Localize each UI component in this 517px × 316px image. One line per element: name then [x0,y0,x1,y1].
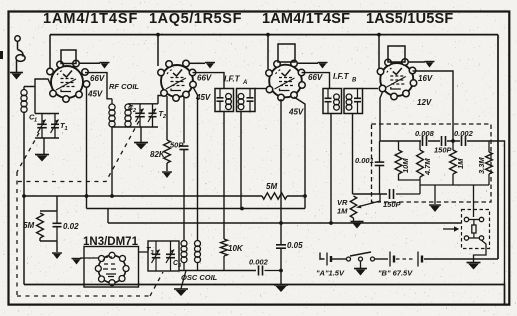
battery A 1.5V cell [327,253,346,266]
ground arrow AVC filter [52,253,62,259]
crystal earphone element [472,220,476,239]
variable capacitor C1 [37,114,47,139]
svg-text:B: B [352,78,357,84]
resistor 10M [395,141,420,180]
ground oscillator [174,289,188,296]
label 3.3M [477,157,486,174]
capacitor 0.002 right [462,136,466,146]
wire V3 pin to IFT B primary [302,73,330,89]
tube V4 1AS5 detector/output [377,59,417,100]
svg-text:5M: 5M [23,221,34,230]
wire RF coil top rail [128,103,158,105]
svg-text:2: 2 [162,114,166,120]
wire top filament bus [50,34,498,36]
IFT B primary winding [334,94,340,110]
gang linkage dashed left rail [16,172,18,296]
ground antenna [10,73,23,80]
node top bus V2 [156,33,160,37]
svg-text:0.002: 0.002 [454,129,474,138]
wire DM71 pin to ground arrow [80,257,99,259]
wire V4 pin to 0.001 [380,92,383,141]
box around DM71 [84,247,139,288]
label RF COIL [109,82,139,91]
svg-text:2: 2 [132,108,136,114]
label 82K [150,150,166,159]
wire bus3 B+ line [108,222,462,224]
label V2 66V [197,74,212,83]
resistor 1M right [450,141,457,185]
resistor 3.3M [486,141,493,185]
svg-text:1: 1 [34,118,37,124]
IFT B secondary box [344,89,363,114]
ground 0.05 [274,285,288,292]
svg-text:0.02: 0.02 [63,222,79,231]
wire RC rail to right return [489,141,505,285]
wire V2 pin to osc coil secondary [193,87,198,241]
wire V2 pin to IFT A primary [193,73,225,89]
grid cap shield V1 [61,50,76,64]
svg-text:12V: 12V [417,98,432,107]
IFT A secondary winding [238,94,244,110]
label tube V3 type 1AM4/1T4SF [262,11,350,27]
label OSC COIL [181,273,218,282]
wire arrow into jack [443,226,459,231]
trimmer T1 [51,114,60,139]
grid cap shield V4 [388,46,405,62]
wire V2 pin to 82K [166,96,168,140]
antenna [15,36,25,72]
wire V3 screen pin down [294,97,305,209]
ground RF coil [134,143,148,150]
wire 82K to ground arrow [166,163,168,171]
label 150P top [434,146,453,155]
label 0.008 [415,129,435,138]
wire AVC filter bottom [40,238,57,252]
resistor 5M vertical [37,213,44,238]
tube V1 1AM4 RF amplifier [47,60,90,102]
wire oscillator bottom rail [179,270,256,272]
gang linkage dashed to C3 [150,272,163,296]
svg-text:1AM4/1T4SF: 1AM4/1T4SF [43,11,138,27]
svg-text:1AS5/1U5SF: 1AS5/1U5SF [366,11,453,27]
ground switch [354,269,367,276]
wire antenna coil top to V1 grid [24,79,53,90]
wire RF coil bottom rail [112,126,158,128]
wire osc ground stem [181,271,186,289]
svg-text:150P: 150P [383,200,402,209]
label C2 [128,103,136,114]
wire jack to ground [474,240,487,262]
label V3 45V [288,108,304,117]
wire IFT A primary bottom to 10K [223,112,225,240]
wire IFT B to V4 grid [363,88,379,90]
node top bus V3 [266,33,270,37]
capacitor 0.008 [423,136,427,146]
node bus1 at V1 line [85,194,89,198]
gang linkage dashed bottom [17,295,150,297]
svg-text:"A"1.5V: "A"1.5V [316,269,345,278]
svg-text:82K: 82K [150,150,166,159]
wire switch to ground [360,261,362,268]
ground RC network [429,205,441,212]
wire VR wiper [356,194,380,208]
svg-text:0.002: 0.002 [249,258,269,267]
label 4.7M [423,158,432,176]
shield dashed box RC network [372,124,492,202]
wire V2 plate to ground arrow [189,62,205,64]
gang linkage dashed C2 [17,121,139,182]
label 10M [401,158,410,173]
wire switch to B battery [375,258,389,260]
label 0.002 bottom [249,258,269,267]
battery B 67.5V cells [390,252,498,267]
trimmer T2 [148,104,157,127]
IFT B secondary winding [346,94,352,110]
label V1 screen 66V [90,74,105,83]
wire V3 plate to ground arrow [297,62,318,64]
wire C1 box top [35,113,59,115]
label I.F.T B [333,72,357,84]
wire detector to 150P coupling [353,193,388,195]
svg-text:3: 3 [178,263,181,269]
label tube V2 type 1AQ5/1R5SF [149,11,242,27]
wire 150P to 4.7M [396,193,420,195]
wire VR to ground [353,218,355,221]
wire V2 pin to 50P [183,98,185,144]
svg-text:"B" 67.5V: "B" 67.5V [378,269,413,278]
wire top bus to V2 grid pin [157,35,159,66]
ground arrow DM71 [72,259,82,265]
label 150P coupling [383,200,402,209]
RF coil secondary winding [125,104,131,127]
wire top bus to V4 grid pin [378,35,380,68]
node bus1 at RF coil [110,194,114,198]
grid cap shield V3 [278,44,295,62]
label 1M right [456,158,465,169]
wire V1 plate to ground arrow [79,62,100,64]
switch power [347,252,375,261]
wire RF coil secondary bottom to AVC bus [111,127,113,196]
wire bus2 to bus3 left end [107,209,109,224]
oscillator coil primary [181,241,187,271]
label 10K [228,244,244,253]
node IFT A secondary at bus2 [240,207,244,211]
wire right-side bus leg [497,35,499,259]
svg-text:RF COIL: RF COIL [109,82,139,91]
IFT A primary box [215,89,234,112]
label tube V4 type 1AS5/1U5SF [366,11,453,27]
node 0.05 at bottom rail [279,269,283,273]
wire AVC bus1 [24,195,305,197]
node IFT B primary at bus3 [329,221,333,225]
IFT B primary capacitor [325,89,332,114]
label I.F.T A [224,75,247,87]
IFT B secondary capacitor [354,89,361,114]
svg-text:OSC COIL: OSC COIL [181,273,218,282]
wire bus2 [87,208,306,210]
label 0.002 right [454,129,474,138]
wire C1 box bottom [35,137,59,139]
svg-text:150P: 150P [434,146,453,155]
jack contacts bottom [464,236,483,240]
svg-text:I.F.T: I.F.T [224,75,241,84]
wire RC bottom rail [453,184,489,186]
svg-text:45V: 45V [288,108,304,117]
resistor 5M AVC [262,193,287,199]
capacitor 0.05 [276,223,286,285]
svg-text:16V: 16V [418,74,433,83]
label V1 plate 45V [87,90,103,99]
svg-text:66V: 66V [197,74,212,83]
wire 50P to osc coil [183,150,185,241]
svg-text:1M: 1M [456,158,465,169]
wire antenna coil top to C1 box [34,87,36,114]
variable capacitor C2 [135,104,145,127]
svg-text:4.7M: 4.7M [423,158,432,176]
svg-text:10K: 10K [228,244,244,253]
node top bus V4 [377,33,381,37]
ground C1 [35,155,49,162]
IFT A primary winding [226,94,232,110]
ground arrow at V2 [205,63,215,69]
ground jack [467,263,481,270]
wire RF coil to V2 grid [158,96,162,104]
node bus1 left [22,194,26,198]
wire antenna coil bottom down left rail [23,114,25,285]
label T1 [60,121,68,132]
wire IFT A secondary bottom to bus2 [240,112,242,209]
jack contacts top [464,217,483,221]
ground arrow at V1 [100,63,110,69]
svg-text:45V: 45V [87,90,103,99]
svg-text:1: 1 [65,126,68,132]
wire C1 to ground [43,138,45,154]
label T3 [146,245,154,256]
label 50P [170,141,184,150]
svg-text:3.3M: 3.3M [477,157,486,174]
node bus1 at screen line [303,194,307,198]
capacitor 150P top [442,136,446,146]
wire DM71 box to oscillator box [139,251,149,253]
capacitor 0.001 [375,141,385,194]
IFT A secondary box [237,89,256,112]
IFT A secondary capacitor [247,89,254,112]
label tube V5 type 1N3/DM71 [83,236,139,248]
label 0.02 [63,222,79,231]
svg-text:0.001: 0.001 [355,156,374,165]
jack dashed box [462,210,490,249]
label 5M AVC [266,182,277,191]
svg-text:0.008: 0.008 [415,129,435,138]
tube V3 1AM4 IF amplifier [266,60,306,101]
svg-text:1AQ5/1R5SF: 1AQ5/1R5SF [149,11,242,27]
wire RF coil to ground [140,127,142,142]
oscillator coil secondary [195,241,201,271]
wire V3 pin to detector line [280,99,282,223]
svg-text:I.F.T: I.F.T [333,72,350,81]
svg-text:10M: 10M [401,158,410,173]
label V3 66V [308,73,323,82]
label A 1.5V [316,269,345,278]
label 5M vertical [23,221,34,230]
wire A battery bracket [320,253,325,260]
box oscillator tuning [148,241,179,271]
label V4 16V [418,74,433,83]
label V2 45V [195,93,211,102]
IFT A primary capacitor [217,89,224,112]
wire top bus to V1 grid pin [49,35,51,69]
svg-text:3: 3 [151,250,154,256]
ground arrow at V4 [425,62,435,68]
wire IFT B secondary bottom to volume pot [352,114,354,195]
label V4 12V [417,98,432,107]
label 0.001 [355,156,374,165]
variable capacitor C3 [166,241,175,271]
ground arrow 82K [162,172,172,178]
resistor 4.7M [417,141,424,194]
capacitor 0.002 bottom [259,266,282,276]
wire RC rail [380,140,489,142]
svg-text:1AM4/1T4SF: 1AM4/1T4SF [262,11,350,27]
node RC rail at plate line [451,139,455,143]
label C1 [29,113,37,124]
label T2 [159,109,167,120]
label VR 1M [337,198,348,216]
trimmer T3 [152,241,161,271]
IFT B primary box [323,89,342,114]
wire V4 plate to ground arrow [408,61,425,63]
svg-text:1M: 1M [337,207,348,216]
label tube V1 type 1AM4/1T4SF [43,11,138,27]
ground VR [351,222,364,229]
wire V1 pin down to bus2 [86,87,88,209]
wire V4 plate pin to RC network [413,71,454,141]
resistor 10K [221,239,228,271]
capacitor 50P [180,146,189,149]
wire IFT A to V3 grid [255,88,266,90]
tube V5 1N3/DM71 tuning indicator [95,252,129,285]
potentiometer VR 1M [350,196,356,218]
ground arrow at V3 [318,63,328,69]
node bus3 at detector line [279,221,283,225]
svg-text:5M: 5M [266,182,277,191]
svg-text:66V: 66V [308,73,323,82]
capacitor 0.02 [53,211,62,241]
wire bottom return bus [24,285,505,305]
wire top bus to V3 grid pin [267,35,269,69]
wire RC ground stem [420,185,453,204]
svg-text:50P: 50P [170,141,184,150]
gang linkage dashed C1 [17,133,39,172]
capacitor 150P coupling [390,189,394,199]
wire IFT B primary bottom to B+ bus [330,114,332,224]
svg-text:A: A [242,80,247,86]
label B 67.5V [378,269,413,278]
antenna coil L1 [21,87,27,115]
wire V1 plate pin to RF coil primary [85,73,112,99]
wire RC to earphone jack [473,185,475,217]
label 0.05 [287,241,303,250]
RF coil primary winding [109,99,115,127]
wire bus1 to AVC filter [40,196,57,211]
label C3 [173,260,181,269]
svg-text:0.05: 0.05 [287,241,303,250]
tube V2 1AQ5 converter [158,60,197,101]
svg-text:66V: 66V [90,74,105,83]
resistor 82K [164,140,171,163]
